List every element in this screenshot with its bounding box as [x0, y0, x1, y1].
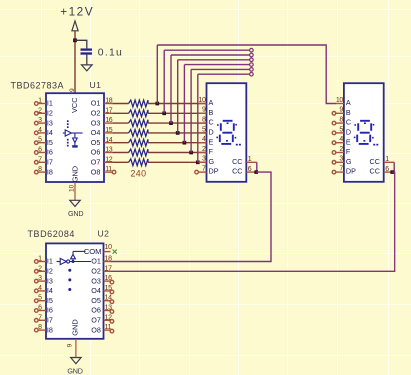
display DS2 pin 4 E [336, 136, 351, 146]
wire U1 O1 to resistor A [112, 103, 128, 105]
svg-text:7: 7 [339, 166, 343, 173]
svg-text:5: 5 [38, 137, 42, 144]
display DS2 pin 10 A [336, 97, 351, 107]
svg-text:GND: GND [68, 209, 83, 218]
display DS2 pin 7 unconnected pin circle [332, 170, 336, 174]
wire C1 to ground [86, 55, 88, 65]
display DS2 pin 3 G [336, 156, 352, 166]
wire net E vertical riser [183, 65, 185, 143]
junction display DS2 CC node [390, 170, 394, 174]
svg-text:5: 5 [38, 295, 42, 302]
open wire end node C [250, 53, 254, 57]
svg-text:4: 4 [38, 285, 42, 292]
display DS1 pin 5 D [199, 126, 214, 136]
U2 pin 16 O3 [91, 275, 112, 285]
U1 pin 13 O6 [91, 147, 113, 157]
U2 pin 2 I2 [35, 265, 53, 275]
svg-text:A: A [209, 98, 214, 107]
U1 pin 4 I4 [35, 127, 53, 137]
svg-text:D: D [209, 128, 214, 137]
svg-text:F: F [346, 147, 351, 156]
wire resistor E to display DS1 pin [148, 142, 207, 144]
display DS2 pin 7 DP [336, 166, 356, 176]
svg-text:D: D [346, 128, 351, 137]
display DS2 7-seg digit glyph [357, 121, 371, 144]
svg-text:2: 2 [339, 146, 343, 153]
svg-text:G: G [346, 157, 352, 166]
resistor R7 (240) segment G [129, 159, 148, 166]
svg-text:O2: O2 [91, 109, 101, 118]
wire DS2 CC to U2 O2 [110, 172, 394, 271]
svg-text:GND: GND [71, 166, 80, 182]
U2 pin 14 unconnected pin circle [110, 300, 114, 304]
svg-text:O8: O8 [91, 167, 101, 176]
display DS2 pin 8 unconnected pin circle [332, 121, 336, 125]
svg-text:CC: CC [232, 157, 242, 166]
wire net D top run (open end) [178, 59, 250, 61]
display DS2 pin 9 B [336, 107, 351, 117]
svg-text:I7: I7 [47, 158, 53, 167]
svg-text:7: 7 [38, 156, 42, 163]
svg-text:I4: I4 [47, 128, 53, 137]
svg-text:E: E [346, 137, 351, 146]
svg-text:8: 8 [38, 166, 42, 173]
svg-text:9: 9 [69, 88, 76, 92]
svg-text:3: 3 [38, 117, 42, 124]
display DS2 pin 5 D [336, 126, 351, 136]
svg-text:O3: O3 [91, 118, 101, 127]
U1 pin 12 O7 [91, 156, 113, 166]
display DS1 pin 1 CC [232, 156, 257, 166]
svg-text:TBD62084: TBD62084 [28, 229, 75, 239]
svg-text:I1: I1 [47, 257, 53, 266]
wire DS1 CC to U2 O1 [110, 172, 271, 261]
svg-text:10: 10 [336, 97, 344, 104]
wire net E top run (open end) [184, 64, 249, 66]
junction node G [196, 160, 200, 164]
display DS2 pin 3 unconnected pin circle [332, 161, 336, 165]
svg-text:4: 4 [339, 136, 343, 143]
svg-text:I6: I6 [47, 306, 53, 315]
svg-text:5: 5 [339, 126, 343, 133]
svg-text:CC: CC [370, 157, 380, 166]
U1 pin 3 I3 [35, 117, 53, 127]
svg-text:0.1u: 0.1u [98, 48, 123, 59]
display DS2 pin 9 unconnected pin circle [332, 112, 336, 116]
svg-text:B: B [209, 108, 214, 117]
svg-text:O5: O5 [91, 138, 101, 147]
open wire end node B [250, 48, 254, 52]
svg-text:O4: O4 [91, 286, 101, 295]
no-connect flag on U2 pin 10 [113, 250, 117, 254]
svg-text:O4: O4 [91, 128, 101, 137]
wire net A vertical riser [156, 45, 158, 104]
svg-text:13: 13 [105, 147, 113, 154]
svg-text:E: E [209, 137, 214, 146]
U2 pin 10 COM [84, 244, 112, 256]
resistor R2 (240) segment B [129, 110, 148, 117]
U1 internal driver symbol [63, 120, 83, 147]
display DS1 pin 9 B [199, 107, 214, 117]
svg-text:8: 8 [202, 117, 206, 124]
U1 pin 11 O8 [91, 166, 112, 176]
U1 pin 1 I1 [35, 98, 53, 108]
display DS1 pin 7 DP [199, 166, 219, 176]
svg-text:2: 2 [202, 146, 206, 153]
svg-text:O6: O6 [91, 306, 101, 315]
svg-text:7: 7 [38, 314, 42, 321]
U1 pin 14 O5 [91, 137, 113, 147]
svg-text:O5: O5 [91, 296, 101, 305]
svg-text:16: 16 [105, 117, 113, 124]
svg-text:1: 1 [38, 98, 42, 105]
svg-text:A: A [346, 98, 351, 107]
ground under C1 [82, 65, 93, 71]
junction node A [155, 102, 159, 106]
display DS2 pin 5 unconnected pin circle [332, 131, 336, 135]
svg-text:DP: DP [209, 167, 219, 176]
wire U1 O7 to resistor G [112, 161, 128, 163]
display DS2 pin 2 unconnected pin circle [332, 151, 336, 155]
svg-text:1: 1 [38, 256, 42, 263]
IC U2 TBD62084 body [46, 243, 104, 338]
display DS2 CC pins tie wire [393, 162, 395, 172]
display DS2 pin 4 unconnected pin circle [332, 141, 336, 145]
resistor R1 (240) segment A [129, 100, 148, 107]
U2 pin 15 O4 [91, 285, 112, 295]
U2 pin 17 O2 [91, 265, 112, 275]
svg-text:10: 10 [198, 97, 206, 104]
svg-text:15: 15 [105, 127, 113, 134]
svg-text:F: F [209, 147, 214, 156]
wire net B top run (open end) [164, 49, 249, 51]
open wire end node F [250, 68, 254, 72]
svg-text:B: B [346, 108, 351, 117]
junction +12V / C1 branch [73, 38, 77, 42]
display DS2 pin 6 CC [370, 166, 395, 176]
svg-text:U1: U1 [90, 80, 102, 90]
resistor R4 (240) segment D [129, 130, 148, 137]
U2 pin 11 O8 [91, 324, 111, 334]
U2 pin 9 GND (bottom) [66, 319, 79, 347]
svg-text:I6: I6 [47, 148, 53, 157]
wire resistor B to display DS1 pin [148, 112, 207, 114]
display DS1 pin 4 E [199, 136, 214, 146]
U1 pin 10 GND (bottom) [68, 166, 79, 192]
wire resistor F to display DS1 pin [148, 152, 207, 154]
wire resistor A to display DS1 pin [148, 103, 207, 105]
display DS1 CC pins tie wire [256, 162, 258, 172]
svg-text:I2: I2 [47, 267, 53, 276]
ground under U2 pin 9 [67, 339, 82, 375]
wire net G vertical riser [197, 74, 199, 162]
U2 pin 18 O1 [91, 256, 112, 266]
resistor R6 (240) segment F [129, 149, 148, 156]
junction node B [162, 111, 166, 115]
U2 pin 12 unconnected pin circle [110, 320, 114, 324]
svg-text:DP: DP [346, 167, 356, 176]
U1 pin 6 I6 [35, 147, 53, 157]
svg-text:17: 17 [105, 107, 113, 114]
svg-text:3: 3 [339, 156, 343, 163]
svg-text:I3: I3 [47, 276, 53, 285]
svg-text:+12V: +12V [60, 5, 94, 19]
svg-text:I7: I7 [47, 316, 53, 325]
U2 pin 5 I5 [35, 295, 53, 305]
U2 pin 4 I4 [35, 285, 53, 295]
U1 pin 15 O4 [91, 127, 113, 137]
svg-text:G: G [209, 157, 215, 166]
U1 pin 8 I8 [35, 166, 53, 176]
capacitor C1 0.1u [81, 48, 124, 59]
svg-text:9: 9 [66, 343, 73, 347]
svg-text:CC: CC [232, 167, 242, 176]
svg-text:U2: U2 [98, 229, 110, 239]
U1 pin 9 VCC (top) [69, 88, 79, 113]
svg-text:14: 14 [105, 137, 113, 144]
svg-text:6: 6 [38, 147, 42, 154]
svg-text:5: 5 [202, 126, 206, 133]
resistor R3 (240) segment C [129, 120, 148, 127]
open wire end node E [250, 63, 254, 67]
svg-text:I5: I5 [47, 138, 53, 147]
wire net C top run (open end) [171, 54, 250, 56]
svg-text:18: 18 [105, 256, 113, 263]
svg-text:I8: I8 [47, 167, 53, 176]
svg-text:18: 18 [105, 98, 113, 105]
svg-text:GND: GND [70, 319, 79, 335]
IC U1 TBD62783A body [46, 93, 104, 182]
svg-text:C: C [346, 118, 351, 127]
junction node C [169, 121, 173, 125]
U2 internal inverter symbol [57, 251, 92, 291]
wire resistor C to display DS1 pin [148, 122, 207, 124]
wire net D vertical riser [177, 60, 179, 133]
wire net F vertical riser [190, 69, 192, 152]
svg-text:I2: I2 [47, 109, 53, 118]
wire resistor G to display DS1 pin [148, 161, 207, 163]
svg-text:11: 11 [105, 166, 112, 173]
svg-text:8: 8 [339, 117, 343, 124]
svg-text:I5: I5 [47, 296, 53, 305]
U1 pin 7 I7 [35, 156, 53, 166]
open wire end node G [250, 72, 254, 76]
U1 pin 17 O2 [91, 107, 113, 117]
wire resistor D to display DS1 pin [148, 132, 207, 134]
svg-text:12: 12 [105, 156, 113, 163]
wire net F top run (open end) [191, 68, 250, 70]
svg-text:9: 9 [339, 107, 343, 114]
svg-text:O2: O2 [91, 267, 101, 276]
U1 pin 18 O1 [91, 98, 113, 108]
svg-text:COM: COM [84, 247, 102, 256]
wire U1 O2 to resistor B [112, 112, 128, 114]
svg-text:O3: O3 [91, 276, 101, 285]
svg-text:10: 10 [68, 184, 75, 192]
svg-text:C: C [209, 118, 214, 127]
svg-text:I8: I8 [47, 325, 53, 334]
svg-text:10: 10 [105, 244, 113, 251]
svg-text:GND: GND [67, 366, 82, 375]
svg-text:8: 8 [38, 324, 42, 331]
svg-text:I4: I4 [47, 286, 53, 295]
display DS1 7-seg digit glyph [220, 121, 234, 144]
svg-text:7: 7 [202, 166, 206, 173]
resistor R5 (240) segment E [129, 139, 148, 146]
wire U1 O4 to resistor D [112, 132, 128, 134]
open wire end node D [250, 58, 254, 62]
display DS1 pin 2 F [199, 146, 214, 156]
svg-text:9: 9 [202, 107, 206, 114]
junction node D [176, 131, 180, 135]
U2 pin 11 unconnected pin circle [110, 329, 114, 333]
wire +12V to U1 VCC pin [74, 31, 76, 93]
wire net C vertical riser [170, 55, 172, 123]
U1 pin 5 I5 [35, 137, 53, 147]
U2 pin 7 I7 [35, 314, 53, 324]
7-segment display DS2 body [344, 83, 384, 182]
U2 pin 14 O5 [91, 295, 112, 305]
svg-text:3: 3 [202, 156, 206, 163]
svg-text:1: 1 [248, 156, 252, 163]
svg-text:4: 4 [202, 136, 206, 143]
svg-text:240: 240 [131, 169, 147, 179]
display DS1 pin 8 C [199, 117, 214, 127]
svg-text:2: 2 [38, 107, 42, 114]
U2 pin 15 unconnected pin circle [110, 290, 114, 294]
U2 pin 16 unconnected pin circle [110, 280, 114, 284]
U2 pin 6 I6 [35, 305, 53, 315]
U1 pin 2 I2 [35, 107, 53, 117]
svg-text:VCC: VCC [70, 97, 79, 113]
ground under U1 pin 10 [68, 182, 83, 218]
svg-text:2: 2 [38, 265, 42, 272]
U2 pin 13 unconnected pin circle [110, 310, 114, 314]
svg-text:4: 4 [38, 127, 42, 134]
U2 pin 13 O6 [91, 305, 112, 315]
svg-text:O1: O1 [91, 257, 101, 266]
svg-text:1: 1 [385, 156, 389, 163]
power +12V [60, 5, 94, 31]
wire net G top run (open end) [198, 73, 250, 75]
wire net B vertical riser [163, 50, 165, 113]
display DS1 pin 10 A [198, 97, 213, 107]
U2 pin 1 I1 [35, 256, 53, 266]
7-segment display DS1 body [207, 83, 247, 182]
svg-text:6: 6 [248, 166, 252, 173]
svg-text:CC: CC [370, 167, 380, 176]
U2 pin 8 I8 [35, 324, 53, 334]
svg-text:O1: O1 [91, 99, 101, 108]
display DS1 pin 6 CC [232, 166, 257, 176]
svg-text:6: 6 [385, 166, 389, 173]
junction node F [189, 151, 193, 155]
svg-text:17: 17 [105, 265, 113, 272]
wire net A across top to DS2 pin A [157, 45, 336, 104]
U2 pin 12 O7 [91, 314, 112, 324]
wire U1 O6 to resistor F [112, 152, 128, 154]
svg-text:O8: O8 [91, 325, 101, 334]
wire U1 O3 to resistor C [112, 122, 128, 124]
svg-text:6: 6 [38, 305, 42, 312]
display DS1 pin 7 DP unconnected pin circle [195, 170, 199, 174]
display DS1 pin 3 G [199, 156, 215, 166]
junction display DS1 CC node [254, 170, 258, 174]
svg-text:I3: I3 [47, 118, 53, 127]
U1 pin 11 O8 unconnected pin circle [112, 170, 116, 174]
junction node E [183, 141, 187, 145]
svg-text:O7: O7 [91, 316, 101, 325]
svg-text:I1: I1 [47, 99, 53, 108]
display DS2 pin 2 F [336, 146, 351, 156]
display DS2 pin 8 C [336, 117, 351, 127]
svg-text:3: 3 [38, 275, 42, 282]
wire U1 O5 to resistor E [112, 142, 128, 144]
U2 pin 3 I3 [35, 275, 53, 285]
wire +12V branch to C1 [75, 40, 87, 48]
svg-text:O7: O7 [91, 158, 101, 167]
display DS2 pin 1 CC [370, 156, 395, 166]
U1 pin 16 O3 [91, 117, 113, 127]
svg-text:O6: O6 [91, 148, 101, 157]
svg-text:TBD62783A: TBD62783A [11, 80, 65, 90]
